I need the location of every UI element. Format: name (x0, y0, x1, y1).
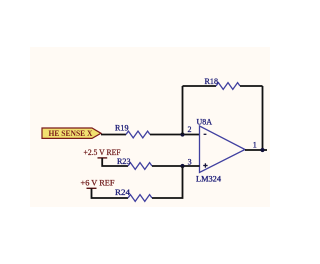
net label HE SENSE X (42, 128, 101, 139)
resistor R19 (115, 124, 150, 138)
svg-text:U8A: U8A (197, 117, 213, 126)
svg-text:3: 3 (188, 157, 192, 166)
svg-text:R24: R24 (115, 188, 130, 197)
junction pin 2 node (180, 132, 184, 136)
wire R18 left segment (183, 85, 217, 87)
wire +6 V REF stub (92, 188, 129, 198)
svg-text:HE SENSE X: HE SENSE X (49, 128, 94, 138)
wire HE SENSE X to R19 (101, 134, 126, 136)
svg-text:R18: R18 (205, 77, 219, 86)
svg-text:R23: R23 (117, 157, 131, 166)
svg-text:2: 2 (188, 125, 192, 134)
wire op-amp output (245, 149, 267, 151)
wire feedback left vertical (182, 86, 184, 135)
svg-text:LM324: LM324 (196, 174, 221, 183)
junction pin 3 node (180, 164, 184, 168)
wire R19 to U8A pin 2 (150, 134, 200, 136)
power net +2.5 V REF (84, 148, 122, 158)
wire +2.5 V REF stub (102, 158, 128, 166)
resistor R23 (117, 157, 152, 169)
svg-text:+2.5 V REF: +2.5 V REF (84, 148, 122, 157)
junction output node (260, 148, 264, 152)
svg-text:R19: R19 (115, 124, 129, 133)
svg-text:1: 1 (253, 141, 257, 150)
resistor R24 (115, 188, 152, 201)
wire R24 to pin 3 node (152, 166, 183, 198)
wire feedback right vertical (262, 86, 264, 150)
op-amp U8A (196, 117, 245, 183)
svg-text:+6 V REF: +6 V REF (81, 179, 116, 188)
wire R23 to U8A pin 3 (152, 165, 200, 167)
power net +6 V REF (81, 179, 116, 189)
resistor R18 (205, 77, 241, 89)
wire R18 right segment (240, 85, 263, 87)
